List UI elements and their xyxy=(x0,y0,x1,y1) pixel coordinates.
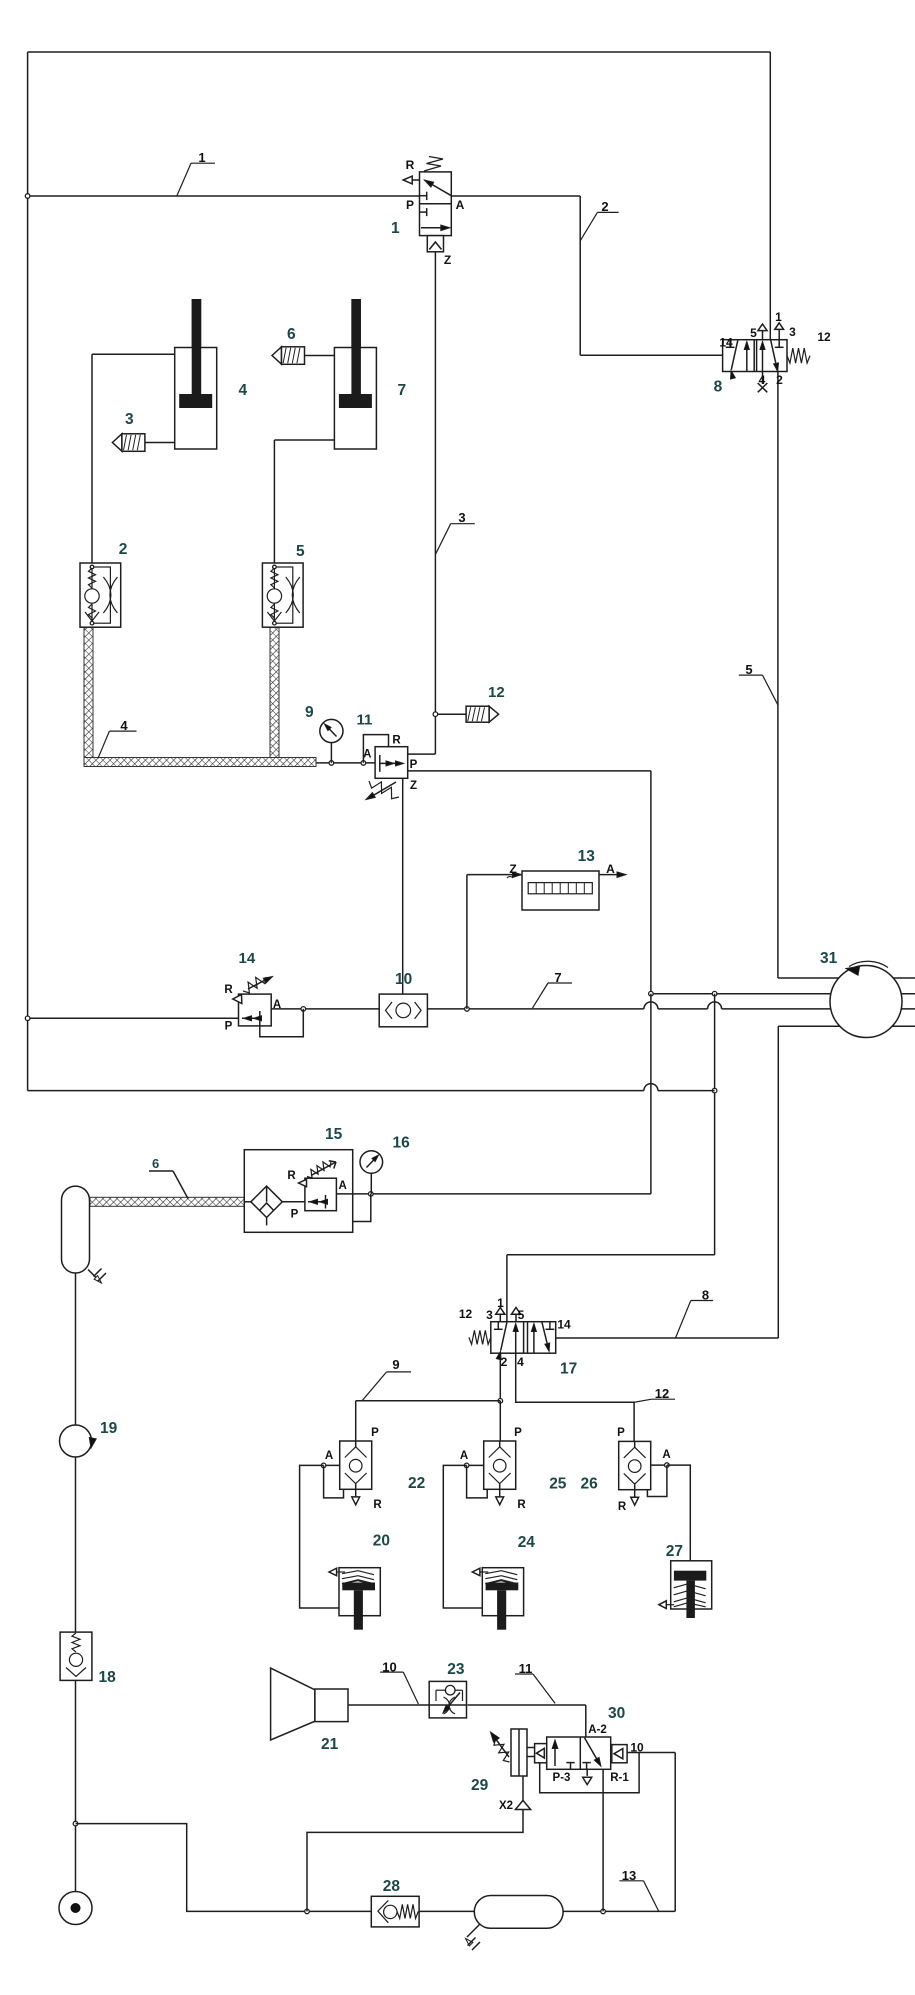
svg-text:15: 15 xyxy=(325,1126,343,1143)
svg-text:14: 14 xyxy=(239,950,256,967)
svg-text:16: 16 xyxy=(393,1135,411,1152)
svg-text:A: A xyxy=(606,862,615,876)
svg-text:12: 12 xyxy=(488,684,505,701)
svg-text:28: 28 xyxy=(383,1878,401,1895)
svg-text:19: 19 xyxy=(100,1420,118,1437)
svg-text:Z: Z xyxy=(444,253,451,267)
svg-text:6: 6 xyxy=(287,326,296,343)
svg-text:A: A xyxy=(339,1180,347,1192)
svg-text:1: 1 xyxy=(497,1296,504,1310)
svg-text:R-1: R-1 xyxy=(610,1772,629,1784)
svg-text:R: R xyxy=(406,158,415,172)
svg-text:2: 2 xyxy=(501,1355,508,1369)
svg-text:21: 21 xyxy=(321,1736,339,1753)
svg-text:4: 4 xyxy=(759,373,766,387)
svg-text:R: R xyxy=(224,984,233,996)
svg-text:18: 18 xyxy=(99,1669,117,1686)
svg-text:2: 2 xyxy=(119,541,128,558)
svg-text:A: A xyxy=(273,999,281,1011)
svg-text:4: 4 xyxy=(239,382,248,399)
svg-text:25: 25 xyxy=(549,1476,567,1493)
svg-text:30: 30 xyxy=(608,1705,625,1722)
svg-text:P: P xyxy=(225,1021,233,1033)
svg-text:31: 31 xyxy=(820,950,838,967)
svg-text:27: 27 xyxy=(666,1543,683,1560)
svg-text:12: 12 xyxy=(459,1307,473,1321)
svg-text:5: 5 xyxy=(296,543,305,560)
svg-text:20: 20 xyxy=(373,1533,390,1550)
svg-text:10: 10 xyxy=(630,1741,644,1755)
svg-text:26: 26 xyxy=(581,1476,599,1493)
svg-text:R: R xyxy=(517,1499,526,1511)
svg-text:1: 1 xyxy=(775,310,782,324)
svg-text:23: 23 xyxy=(447,1661,465,1678)
svg-text:A: A xyxy=(662,1449,670,1461)
svg-text:5: 5 xyxy=(518,1308,525,1322)
svg-text:7: 7 xyxy=(398,382,407,399)
svg-text:A: A xyxy=(325,1450,333,1462)
svg-text:Z: Z xyxy=(410,780,417,792)
svg-text:2: 2 xyxy=(776,373,783,387)
svg-text:4: 4 xyxy=(517,1355,524,1369)
svg-text:P: P xyxy=(406,198,414,212)
svg-text:R: R xyxy=(373,1499,382,1511)
svg-text:2: 2 xyxy=(601,199,608,214)
svg-text:P: P xyxy=(291,1209,299,1221)
svg-text:17: 17 xyxy=(560,1361,577,1378)
svg-text:R: R xyxy=(287,1170,296,1182)
svg-text:R: R xyxy=(392,735,401,747)
svg-text:Z: Z xyxy=(509,862,516,876)
svg-text:22: 22 xyxy=(408,1475,425,1492)
svg-text:A: A xyxy=(456,198,465,212)
svg-text:3: 3 xyxy=(486,1308,493,1322)
svg-text:P-3: P-3 xyxy=(553,1772,571,1784)
svg-text:14: 14 xyxy=(557,1318,571,1332)
svg-text:P: P xyxy=(514,1427,522,1439)
svg-text:29: 29 xyxy=(471,1777,489,1794)
svg-text:24: 24 xyxy=(518,1534,536,1551)
svg-text:6: 6 xyxy=(152,1156,159,1171)
svg-text:P: P xyxy=(371,1427,379,1439)
svg-text:P: P xyxy=(617,1427,625,1439)
svg-text:5: 5 xyxy=(750,326,757,340)
svg-text:3: 3 xyxy=(125,411,134,428)
svg-text:14: 14 xyxy=(719,336,733,350)
svg-text:P: P xyxy=(410,759,418,771)
svg-text:A: A xyxy=(363,749,371,761)
svg-text:12: 12 xyxy=(817,330,831,344)
svg-text:A: A xyxy=(460,1450,468,1462)
svg-text:13: 13 xyxy=(578,848,596,865)
svg-text:10: 10 xyxy=(395,971,412,988)
svg-text:3: 3 xyxy=(789,325,796,339)
svg-text:A-2: A-2 xyxy=(588,1724,607,1736)
svg-text:11: 11 xyxy=(357,712,373,729)
svg-text:8: 8 xyxy=(714,378,723,395)
svg-text:1: 1 xyxy=(391,220,400,237)
svg-text:9: 9 xyxy=(392,1357,399,1372)
svg-text:9: 9 xyxy=(305,704,314,721)
svg-text:X2: X2 xyxy=(499,1800,513,1812)
svg-text:R: R xyxy=(618,1501,627,1513)
svg-text:3: 3 xyxy=(458,510,465,525)
